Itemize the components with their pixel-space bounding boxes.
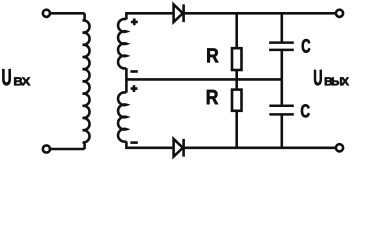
terminal output top-right <box>336 10 343 17</box>
wire bottom rail D2 to output terminal <box>184 147 336 150</box>
label C2 text <box>301 104 310 117</box>
label Uvyx subscript vyx <box>325 77 349 85</box>
wire C1 to midline <box>280 50 283 80</box>
transformer primary winding W1 <box>83 13 90 149</box>
polarity minus bottom of W2b <box>130 141 137 144</box>
capacitor C2 plates <box>269 106 294 115</box>
polarity plus top of W2b <box>131 85 138 92</box>
terminal output bottom-right <box>336 144 343 151</box>
resistor R2 body <box>232 90 242 111</box>
capacitor C1 plates <box>269 43 294 50</box>
label C1 text <box>302 39 310 53</box>
wire R2 to bottom rail <box>235 111 238 148</box>
wire R1 to midline <box>235 70 238 79</box>
wire top rail to C1 <box>280 13 283 42</box>
label Uvx letter U <box>2 69 10 85</box>
diode D2 triangle <box>174 139 183 157</box>
wire secondary bottom to diode D2 <box>126 141 172 147</box>
wire midline to C2 <box>280 79 283 105</box>
wire C2 to bottom rail <box>280 114 283 147</box>
label Uvx subscript vx <box>14 77 30 85</box>
wire center tap line to capacitor midpoint <box>126 78 281 81</box>
wire midline to R2 <box>235 79 238 89</box>
resistor R1 body <box>232 48 242 70</box>
label R2 text <box>207 90 218 104</box>
diode D2 cathode bar <box>182 139 185 157</box>
wire center tap vertical <box>125 68 128 93</box>
terminal input bottom-left <box>43 145 50 152</box>
wire top-left terminal to primary <box>51 12 85 15</box>
wire primary bottom to bottom-left terminal <box>51 148 85 151</box>
wire secondary top to diode D1 <box>126 13 172 19</box>
wire top rail to R1 <box>235 13 238 47</box>
terminal input top-left <box>43 10 50 17</box>
label R1 text <box>207 48 218 62</box>
transformer secondary lower winding W2b <box>118 92 126 141</box>
polarity minus bottom of W2a <box>130 70 137 73</box>
diode D1 triangle <box>174 4 183 22</box>
polarity plus top of W2a <box>131 18 138 25</box>
diode D1 cathode bar <box>182 4 185 22</box>
wire top rail D1 to output terminal <box>184 12 336 15</box>
label Uvyx letter U <box>314 70 322 85</box>
transformer secondary upper winding W2a <box>118 19 126 68</box>
